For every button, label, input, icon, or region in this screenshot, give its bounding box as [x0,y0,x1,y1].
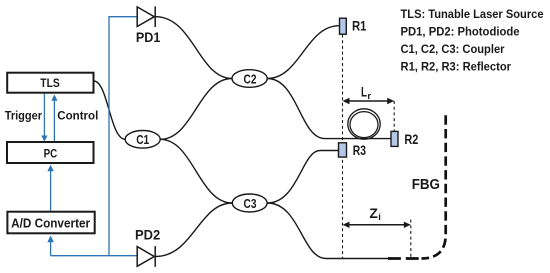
svg-text:Z: Z [369,205,378,221]
svg-text:L: L [361,84,367,99]
svg-text:C1, C2, C3: Coupler: C1, C2, C3: Coupler [401,42,505,56]
svg-text:A/D Converter: A/D Converter [11,215,90,230]
svg-text:Control: Control [57,111,98,123]
svg-text:PD1, PD2: Photodiode: PD1, PD2: Photodiode [401,25,520,39]
svg-text:r: r [367,91,371,102]
svg-text:C3: C3 [244,196,257,211]
svg-text:PC: PC [44,146,58,160]
svg-text:R3: R3 [353,143,366,158]
svg-text:FBG: FBG [412,176,440,193]
svg-text:C1: C1 [136,132,149,147]
svg-text:R1: R1 [352,18,367,33]
svg-text:TLS: TLS [40,77,60,90]
svg-text:TLS: Tunable Laser Source: TLS: Tunable Laser Source [401,7,544,21]
svg-text:PD2: PD2 [135,227,160,243]
svg-text:i: i [378,212,381,223]
svg-text:C2: C2 [244,71,257,86]
svg-text:Trigger: Trigger [5,111,43,123]
svg-text:PD1: PD1 [136,29,161,45]
svg-text:R2: R2 [404,132,418,147]
svg-text:R1, R2, R3: Reflector: R1, R2, R3: Reflector [401,59,512,73]
